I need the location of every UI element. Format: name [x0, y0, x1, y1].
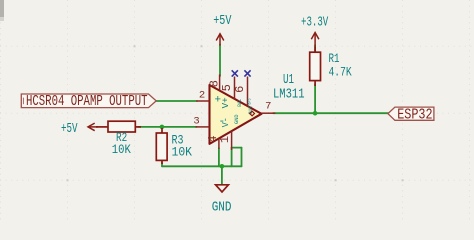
- svg-text:LM311: LM311: [273, 88, 305, 103]
- wire R3 bottom: [161, 163, 163, 167]
- pin 4: [218, 138, 220, 149]
- pin 7: [262, 112, 276, 114]
- wire output to ESP32: [273, 112, 389, 114]
- resistor R2: [96, 121, 141, 132]
- junction node at output/R1: [313, 111, 318, 116]
- global label ESP32: [388, 107, 434, 120]
- svg-text:+5V: +5V: [61, 121, 78, 137]
- wire pin1 jog horizontal: [232, 147, 242, 149]
- svg-text:+5V: +5V: [213, 13, 232, 29]
- pin 6: [247, 77, 249, 107]
- wire R2 to pin3: [138, 126, 197, 128]
- pin 1: [231, 131, 233, 150]
- wire pin4 drop: [218, 148, 220, 166]
- power +5V (top): [216, 34, 224, 46]
- wire label to pin2: [156, 100, 197, 102]
- svg-text:7: 7: [265, 100, 271, 112]
- pin 8: [219, 75, 221, 91]
- svg-text:V+: V+: [220, 97, 231, 108]
- wire gnd drop: [221, 166, 223, 184]
- ground symbol: [216, 185, 229, 192]
- wire pin1 jog vertical: [241, 148, 243, 167]
- svg-text:3: 3: [193, 115, 199, 127]
- power +3.3V: [311, 33, 319, 48]
- wire bottom horizontal gnd net: [162, 165, 242, 167]
- svg-text:1: 1: [218, 136, 232, 143]
- junction node at GND net: [220, 164, 225, 169]
- junction node at R3 tap: [160, 125, 165, 130]
- svg-text:GND: GND: [234, 114, 240, 124]
- no-connect X pin5: [232, 70, 238, 76]
- svg-text:B/S: B/S: [247, 98, 253, 104]
- svg-text:4.7K: 4.7K: [329, 65, 352, 80]
- wire R1 to output net: [314, 84, 316, 113]
- svg-text:10K: 10K: [172, 145, 193, 160]
- svg-text:2: 2: [199, 90, 205, 102]
- pin 2: [196, 100, 209, 102]
- svg-text:V-: V-: [220, 117, 231, 127]
- wire +5V to pin8: [219, 45, 221, 77]
- wire pin1 straight drop: [231, 148, 233, 167]
- svg-text:ESP32: ESP32: [397, 108, 432, 124]
- global label HCSR04 OPAMP OUTPUT: [21, 94, 156, 108]
- svg-text:BAL: BAL: [237, 99, 243, 107]
- pin 5: [234, 77, 236, 100]
- power +5V (left, at R2): [88, 123, 98, 131]
- wire +3.3V to R1: [314, 45, 316, 53]
- open collector diamond: [250, 111, 255, 116]
- svg-text:+3.3V: +3.3V: [301, 15, 329, 31]
- svg-text:6: 6: [233, 86, 247, 93]
- svg-text:10K: 10K: [112, 142, 131, 157]
- svg-text:HCSR04 OPAMP OUTPUT: HCSR04 OPAMP OUTPUT: [26, 94, 148, 110]
- op-amp U1 body: [210, 85, 262, 144]
- resistor R1: [310, 47, 321, 86]
- svg-text:GND: GND: [212, 201, 232, 216]
- resistor R3: [156, 128, 167, 164]
- svg-text:5: 5: [220, 84, 234, 91]
- pin 3: [196, 126, 210, 128]
- svg-text:U1: U1: [283, 73, 294, 88]
- no-connect X pin6: [244, 70, 250, 76]
